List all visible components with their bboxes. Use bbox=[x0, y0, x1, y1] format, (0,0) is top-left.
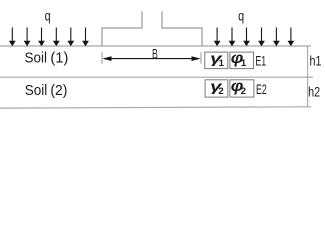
surcharge label q (left) bbox=[45, 7, 51, 23]
label Soil (2) bbox=[25, 82, 68, 99]
arrow R2 bbox=[229, 28, 236, 47]
label E2 bbox=[256, 81, 267, 97]
svg-text:E2: E2 bbox=[256, 81, 267, 97]
svg-text:Soil: Soil bbox=[25, 49, 48, 66]
parameter box gamma1 bbox=[205, 50, 228, 69]
svg-text:B: B bbox=[152, 45, 158, 61]
svg-text:h2: h2 bbox=[308, 83, 320, 99]
extension tick right (B) bbox=[200, 52, 202, 64]
extension tick left (B) bbox=[101, 52, 103, 64]
arrow L2 bbox=[24, 28, 31, 47]
arrow R1 bbox=[214, 28, 221, 47]
arrow L6 bbox=[82, 28, 89, 47]
arrow R6 bbox=[288, 28, 295, 47]
arrow L3 bbox=[38, 28, 45, 47]
label h1 bbox=[310, 52, 322, 68]
svg-text:q: q bbox=[45, 7, 51, 23]
svg-text:h1: h1 bbox=[310, 52, 322, 68]
surcharge label q (right) bbox=[238, 8, 244, 24]
svg-text:Soil: Soil bbox=[25, 82, 48, 99]
parameter box phi2 bbox=[230, 77, 254, 97]
parameter box gamma2 bbox=[205, 78, 228, 97]
svg-text:q: q bbox=[238, 8, 244, 24]
ground surface line bbox=[0, 45, 311, 47]
label E1 bbox=[255, 52, 266, 68]
svg-text:2: 2 bbox=[218, 86, 223, 97]
bottom boundary line bbox=[0, 107, 311, 108]
depth bracket vertical bbox=[307, 46, 309, 107]
arrow R4 bbox=[258, 28, 265, 47]
arrow L5 bbox=[67, 28, 74, 47]
svg-text:(1): (1) bbox=[50, 49, 68, 66]
svg-text:2: 2 bbox=[241, 86, 246, 97]
arrow R5 bbox=[273, 28, 280, 47]
label h2 bbox=[308, 83, 320, 99]
svg-text:1: 1 bbox=[219, 58, 225, 69]
label B bbox=[152, 45, 158, 61]
arrow L4 bbox=[53, 28, 60, 47]
parameter box phi1 bbox=[230, 49, 254, 69]
arrow L1 bbox=[9, 28, 16, 47]
arrow R3 bbox=[243, 28, 250, 47]
svg-text:1: 1 bbox=[241, 58, 247, 69]
svg-text:E1: E1 bbox=[255, 52, 266, 68]
label Soil (1) bbox=[25, 49, 69, 66]
surcharge arrows (right) bbox=[214, 28, 295, 47]
dimension line B with arrowheads bbox=[102, 56, 200, 61]
depth tick at layer boundary bbox=[305, 76, 313, 78]
footing and column outline bbox=[102, 11, 202, 46]
surcharge arrows (left) bbox=[9, 28, 89, 47]
soil layer boundary line bbox=[0, 76, 311, 78]
svg-text:(2): (2) bbox=[50, 82, 67, 99]
